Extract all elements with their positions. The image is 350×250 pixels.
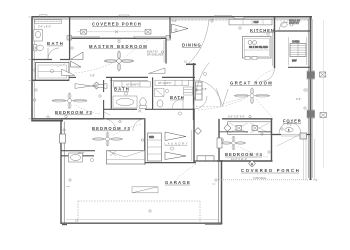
svg-text:DINING: DINING <box>182 43 201 48</box>
label: BEDROOM #3 <box>92 126 130 131</box>
svg-text:MASTER BEDROOM: MASTER BEDROOM <box>89 44 147 49</box>
svg-text:BATH: BATH <box>47 41 63 46</box>
dining: label <box>182 43 201 48</box>
top-left bath: closet shelf row <box>35 20 62 24</box>
wall: long y80 from 32 to 195 <box>32 77 196 80</box>
closet door X <box>110 151 116 156</box>
tick marks above top wall left <box>40 15 48 17</box>
wall: garage top left y156 <box>61 155 94 157</box>
svg-text:36 X 66 ISLAND: 36 X 66 ISLAND <box>249 45 268 49</box>
wall: left inset bottom <box>32 120 64 122</box>
label: COVERED PORCH top <box>92 22 141 27</box>
foyer door marker oval 1 <box>285 128 293 132</box>
master door leaf near WIC <box>62 69 76 75</box>
svg-text:BEDROOM #4: BEDROOM #4 <box>225 152 262 157</box>
svg-text:6'-0" 3'-0" 6'-0": 6'-0" 3'-0" 6'-0" <box>228 114 245 118</box>
great room door arcs from hall <box>194 80 228 109</box>
label: FOYER <box>283 119 301 124</box>
builtin cabinet on great room wall <box>196 82 203 100</box>
label: GREAT ROOM <box>230 80 272 85</box>
wall: bedroom3 bottom y150.5 <box>61 150 95 152</box>
left wall dim ticks <box>29 17 33 119</box>
bedroom2 double door bowtie <box>75 84 107 89</box>
ceiling fan: bedroom3 <box>92 132 123 146</box>
outlet symbols scattered <box>32 19 308 213</box>
bath toilet <box>34 45 44 51</box>
laundry door triangles <box>165 132 186 160</box>
wall: laundry bottom y162.5 <box>145 162 196 164</box>
bath1 tub bottom <box>113 96 137 108</box>
svg-text:COVERED PORCH: COVERED PORCH <box>92 22 141 27</box>
bath2 toilet <box>157 100 163 107</box>
wall: foyer front y134.5 <box>272 134 312 136</box>
covered porch top: house front wall <box>69 37 170 39</box>
bath2 door arc <box>172 98 183 109</box>
wall: bedroom4 left x219 <box>218 119 220 161</box>
label: KITCHEN <box>250 28 274 33</box>
porch slab side lines <box>219 139 315 180</box>
svg-text:OVEN: OVEN <box>292 40 299 44</box>
wall: garage right <box>218 160 221 224</box>
hall diamond marker <box>195 128 202 135</box>
label: BATH (hall bath 1) <box>114 87 129 92</box>
wall: kitchen bottom right y67 <box>288 66 310 68</box>
wall: bed2 right x103 <box>103 80 105 119</box>
wall: bedroom4 closet y131.8 <box>219 131 272 133</box>
pantry sink + note <box>281 19 300 28</box>
hall dim marks near 193 wall <box>186 63 196 65</box>
island stools <box>245 57 257 60</box>
built-in note <box>147 50 163 57</box>
porch dim line <box>77 30 150 33</box>
bedroom4 closet markers row <box>224 124 258 131</box>
label: BEDROOM #4 <box>225 152 262 157</box>
cabinet small left <box>234 17 244 19</box>
thermostat diamond T <box>93 82 100 89</box>
right dimension line <box>322 20 324 168</box>
closet door arcs bottom hall <box>104 119 145 131</box>
svg-text:5'-4" x 8'-0": 5'-4" x 8'-0" <box>38 25 51 29</box>
bath2 vanity <box>155 80 189 86</box>
wall: great room bottom / hall y118.8 <box>222 118 273 120</box>
porch posts <box>67 36 171 41</box>
kitchen opening arc to great room <box>262 68 275 81</box>
svg-text:LOW WALL: LOW WALL <box>253 176 267 180</box>
window marker X right wall upper <box>320 72 326 77</box>
svg-text:5'-8": 5'-8" <box>202 87 207 91</box>
wall: right exterior <box>308 17 312 181</box>
svg-text:20'-0": 20'-0" <box>78 151 85 155</box>
bed3 closet <box>107 151 145 165</box>
svg-text:A: A <box>251 162 253 166</box>
porch roof diagonal <box>277 135 299 146</box>
svg-text:GREAT ROOM: GREAT ROOM <box>230 80 272 85</box>
bath door arc <box>48 48 59 59</box>
svg-text:5'-8": 5'-8" <box>90 74 95 78</box>
wall: garage top right y161 <box>194 160 222 162</box>
master entry door triangles <box>71 52 84 67</box>
svg-text:4'-0": 4'-0" <box>287 122 292 126</box>
ceiling fan: master <box>104 51 134 72</box>
label: LAUNDRY <box>165 141 188 145</box>
bath1 toilet <box>140 98 146 109</box>
bedroom4 left wall window box <box>217 138 222 148</box>
hall small marks between baths <box>104 109 141 115</box>
diamond marker A <box>249 160 256 167</box>
garage wall ticks <box>67 184 216 187</box>
label: BEDROOM #2 <box>55 110 92 115</box>
svg-text:W/D: W/D <box>149 135 154 139</box>
wall: left exterior <box>32 17 34 122</box>
dashed beam line below top wall <box>171 20 310 22</box>
bed2 window on left wall <box>31 96 33 108</box>
switch legs dashed arcs <box>56 31 277 184</box>
wall: garage bottom <box>61 220 222 225</box>
linen shelves right of bath2 <box>184 87 193 95</box>
wall: bedroom2 bottom y118.7 <box>32 118 146 120</box>
tick marks above top wall mid <box>119 15 129 17</box>
svg-text:MW: MW <box>292 59 297 63</box>
kitchen island <box>243 37 272 59</box>
wall: bedroom4 right x271.5 <box>271 119 273 161</box>
svg-text:BEDROOM #2: BEDROOM #2 <box>55 110 92 115</box>
wall: master right x166 <box>164 39 166 64</box>
porch bottom dotted <box>219 179 316 181</box>
label: GARAGE <box>165 180 190 185</box>
hall to dining door arc <box>194 63 210 109</box>
foyer front door fan arc <box>279 123 301 134</box>
oven/mw stack <box>289 37 307 65</box>
window marker X-box porch left <box>81 30 87 35</box>
window marker X right wall lower <box>320 113 326 118</box>
hallway bookcase long <box>228 122 272 135</box>
garage door dashed outline <box>78 201 200 223</box>
svg-text:BATH: BATH <box>170 95 184 100</box>
svg-text:48" VANITY: 48" VANITY <box>158 81 172 85</box>
label: BATH top-left <box>47 41 63 46</box>
front door threshold <box>281 135 302 137</box>
bath1 vanity row <box>114 82 151 88</box>
wall: bedroom3 right x144.8 <box>144 119 146 165</box>
master door leaf to hall <box>149 68 166 74</box>
wall: bath bottom y59 <box>32 59 71 61</box>
svg-text:KITCHEN: KITCHEN <box>250 28 274 33</box>
label: MASTER BEDROOM <box>89 44 147 49</box>
svg-text:REF: REF <box>254 20 260 24</box>
ceiling fan: bedroom2 <box>52 93 87 109</box>
label: COVERED PORCH bottom <box>241 168 299 173</box>
porch column right <box>300 133 307 139</box>
laundry: W/D stack <box>148 133 162 161</box>
wall: bath/porch divider vertical x69 <box>69 17 71 60</box>
wall: garage left <box>61 120 64 224</box>
small ceiling lights <box>50 23 293 162</box>
garage stoop <box>197 156 214 161</box>
garage utility tub <box>69 153 83 162</box>
label: BATH (hall bath 2) <box>170 95 184 100</box>
WIC shelves inner <box>38 65 67 78</box>
dashed line hall to great room doors <box>196 106 221 108</box>
svg-text:12'-0" X 11'-0": 12'-0" X 11'-0" <box>231 157 247 161</box>
svg-text:BEDROOM #3: BEDROOM #3 <box>92 126 130 131</box>
svg-text:11': 11' <box>184 60 188 64</box>
window ticks top wall dining <box>214 15 232 17</box>
master window sill detail <box>100 37 133 39</box>
bath2 shower hatch <box>155 89 165 97</box>
svg-text:BATH: BATH <box>114 87 129 92</box>
svg-text:GARAGE: GARAGE <box>165 180 190 185</box>
wall: bedroom4 bottom <box>217 160 273 162</box>
svg-text:9'-6": 9'-6" <box>296 97 301 101</box>
wall: top exterior <box>32 17 313 19</box>
ceiling fan: great room <box>234 88 270 105</box>
window marker X-box porch right <box>145 30 151 35</box>
svg-text:BR SHELVES: BR SHELVES <box>147 53 163 57</box>
kitchen upper cabinets <box>229 19 272 25</box>
wall: kitchen right x274.5 <box>273 17 275 69</box>
svg-text:3'-0": 3'-0" <box>172 19 177 23</box>
garage attic access rect <box>132 187 158 193</box>
dining door triangle at left <box>172 24 189 33</box>
ceiling fan: bedroom4 <box>221 136 246 150</box>
WIC outline <box>36 63 70 81</box>
wall: laundry right x194 <box>192 109 194 163</box>
bath vanity left <box>34 30 43 42</box>
right wall pilaster blocks <box>307 72 315 118</box>
wall: dining left x170 <box>169 17 171 39</box>
pantry door arc <box>279 22 288 31</box>
bath block: bath1 walls <box>103 63 195 120</box>
window marker on garage-left wall <box>60 134 66 143</box>
pantry room top right <box>275 30 311 32</box>
dining cased opening arc <box>188 20 209 65</box>
